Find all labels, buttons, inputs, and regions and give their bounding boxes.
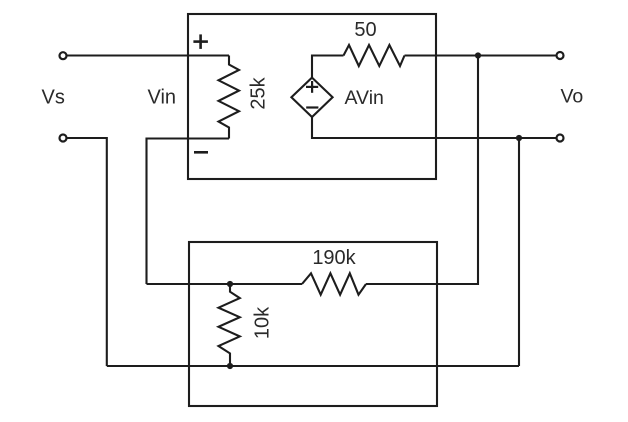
- svg-text:AVin: AVin: [345, 87, 384, 109]
- minus sign Vin port: [194, 151, 208, 154]
- resistor 10k: [219, 284, 240, 366]
- junction dot Vo+ node: [475, 52, 481, 58]
- dependent source U1 diamond: [291, 78, 332, 117]
- wire Vs- down: [67, 138, 107, 366]
- svg-text:190k: 190k: [312, 247, 356, 269]
- junction dot 10k bottom node: [227, 363, 233, 369]
- terminal Vo-: [557, 135, 564, 142]
- wire 190k to Vo+ riser: [366, 56, 478, 285]
- svg-text:Vin: Vin: [148, 87, 177, 109]
- svg-text:10k: 10k: [252, 306, 274, 339]
- wire dependent source bottom lead to Vo-: [312, 117, 556, 138]
- svg-text:50: 50: [354, 19, 376, 41]
- plus sign inside dependent source: [306, 81, 318, 93]
- amplifier model box: [188, 14, 436, 179]
- wire dependent source top lead: [312, 56, 344, 78]
- wire Vin- lead: [147, 139, 230, 285]
- svg-text:Vs: Vs: [42, 87, 65, 109]
- junction dot Vo- node: [516, 135, 522, 141]
- minus sign inside dependent source: [306, 106, 318, 108]
- feedback network box: [189, 242, 437, 406]
- wire Vo- riser: [518, 138, 520, 366]
- junction dot 10k top node: [227, 281, 233, 287]
- resistor 190k: [302, 273, 366, 294]
- plus sign Vin port: [193, 34, 208, 49]
- wire 50 to Vo+: [405, 54, 557, 56]
- resistor 50: [344, 45, 405, 66]
- resistor 25k: [219, 56, 240, 139]
- wire Vs+ to Vin+: [67, 54, 229, 56]
- svg-text:25k: 25k: [248, 76, 270, 109]
- terminal Vs-: [60, 135, 67, 142]
- wire node B to 190k: [147, 283, 303, 285]
- terminal Vs+: [60, 52, 67, 59]
- svg-text:Vo: Vo: [561, 86, 584, 108]
- terminal Vo+: [557, 52, 564, 59]
- wire bottom rail: [107, 365, 519, 367]
